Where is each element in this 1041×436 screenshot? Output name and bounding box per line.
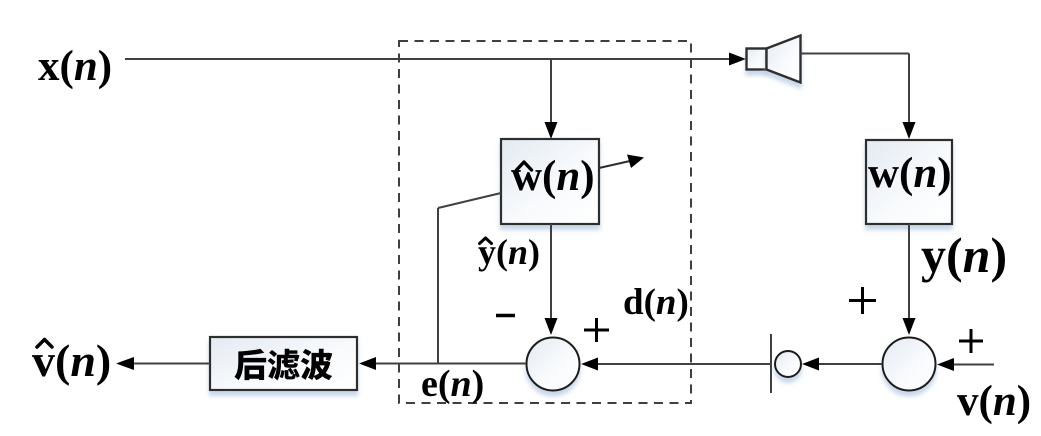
arrowhead into sum1 from y^ (545, 318, 558, 335)
wire w^(n) to sum1 (y^ path) (550, 224, 552, 322)
plus sign for v(n) at sum2 (959, 329, 983, 353)
loudspeaker LS (driver box) (747, 49, 767, 70)
wire loudspeaker to w(n): vertical (908, 54, 910, 127)
wire top line branch into w^(n) (550, 59, 552, 126)
arrowhead toward v^(n) (116, 357, 134, 370)
arrowhead into sum2 (903, 318, 916, 335)
dashed adaptive-filter boundary box (399, 41, 691, 403)
plus sign at sum1 for d(n) (584, 318, 609, 342)
arrowhead into microphone (802, 358, 819, 371)
hat over y of y^(n) (480, 238, 492, 244)
wire w(n) to sum2 (908, 224, 910, 322)
output wire to v^(n) (134, 363, 210, 365)
summing node sum1 (527, 338, 580, 391)
adaptation arrow out of w^(n) (599, 161, 630, 168)
summing node sum2 (883, 338, 936, 391)
wire x(n) to loudspeaker (125, 58, 732, 60)
arrowhead into sum1 from d(n) (581, 358, 598, 371)
svg-text:y(n): y(n) (921, 227, 1007, 283)
post-filter block (210, 337, 357, 390)
label 后滤波 (postfilter) (234, 349, 332, 381)
error feedback wire: diagonal into w^(n) (438, 193, 501, 208)
loudspeaker horn (767, 36, 801, 83)
minus sign at sum1 for y^(n) (496, 314, 515, 317)
hat over w of w^(n) (517, 162, 532, 170)
svg-text:w(n): w(n) (511, 153, 595, 200)
svg-text:v(n): v(n) (957, 378, 1031, 425)
wire sum1 to post-filter (376, 363, 526, 365)
hat over v of v^(n) (37, 340, 52, 348)
arrowhead into w(n) (903, 122, 916, 139)
svg-text:d(n): d(n) (623, 282, 689, 323)
svg-text:x(n): x(n) (38, 43, 112, 90)
arrowhead into post-filter (359, 357, 376, 370)
arrowhead into w^(n) (545, 122, 558, 139)
wire v(n) into sum2 (953, 364, 994, 366)
svg-text:v(n): v(n) (32, 335, 111, 386)
wire loudspeaker to w(n): horizontal (801, 53, 910, 55)
adaptive filter block w^(n) (501, 139, 599, 224)
svg-text:w(n): w(n) (868, 150, 952, 197)
error feedback wire: vertical (437, 208, 439, 364)
microphone diaphragm bar (770, 334, 772, 393)
wire microphone to sum1 (d(n) path) (598, 363, 771, 365)
arrowhead into sum2 from v(n) (937, 358, 954, 371)
echo path block w(n) (866, 140, 952, 224)
microphone circle (775, 351, 801, 377)
svg-text:e(n): e(n) (421, 363, 484, 405)
plus sign for y(n) at sum2 (849, 287, 876, 314)
wire sum2 to microphone (818, 363, 882, 365)
arrowhead into loudspeaker (729, 53, 746, 66)
